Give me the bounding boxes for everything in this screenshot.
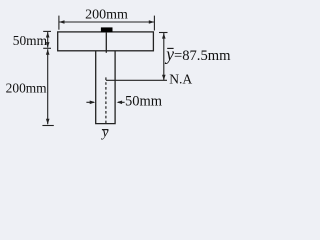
left 200mm dimension line with arrows bbox=[47, 49, 49, 124]
overbar of ybar label bbox=[167, 47, 173, 49]
top dimension line with outward arrowheads bbox=[59, 21, 153, 23]
dashed centroid axis in web bbox=[105, 77, 107, 123]
svg-text:N.A: N.A bbox=[169, 72, 192, 87]
left 50mm dimension: divider bar bbox=[43, 47, 51, 49]
svg-text:200mm: 200mm bbox=[85, 8, 128, 23]
right ybar dimension: top bar bbox=[159, 32, 168, 34]
centroid marker (black square on top of flange) bbox=[101, 27, 113, 32]
flange (top rectangle of T-section) bbox=[58, 32, 154, 51]
svg-text:200mm: 200mm bbox=[6, 80, 48, 95]
neutral axis line bbox=[106, 79, 167, 81]
svg-text:50mm: 50mm bbox=[13, 33, 48, 48]
centroid stub line through flange bbox=[105, 32, 107, 53]
web 50mm dimension: left arrow bbox=[86, 101, 94, 103]
left 50mm dimension line with arrows bbox=[47, 32, 49, 48]
web (stem rectangle of T-section) bbox=[96, 51, 115, 124]
left 200mm dimension: bottom bar bbox=[42, 125, 53, 127]
svg-text:y: y bbox=[100, 125, 109, 140]
overbar of bottom ybar label bbox=[102, 129, 109, 131]
top dimension extension tick right bbox=[153, 16, 155, 31]
top dimension extension tick left bbox=[58, 16, 60, 30]
left 50mm dimension: top bar bbox=[43, 30, 51, 32]
web 50mm dimension: right arrow bbox=[118, 101, 125, 103]
right ybar dimension line with arrows bbox=[163, 33, 165, 80]
svg-text:50mm: 50mm bbox=[125, 93, 163, 109]
